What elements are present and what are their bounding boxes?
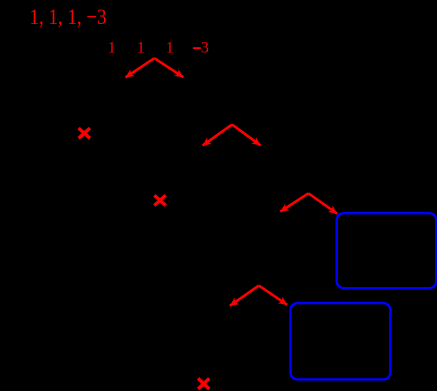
cross X1 bbox=[79, 128, 90, 138]
svg-text:1: 1 bbox=[137, 39, 145, 56]
blue box 1 bbox=[337, 213, 437, 288]
svg-text:3: 3 bbox=[201, 39, 209, 56]
cross X2 bbox=[154, 195, 165, 205]
svg-text:1: 1 bbox=[166, 39, 174, 56]
arrow V3 left bbox=[280, 193, 308, 211]
arrow V3 right bbox=[308, 193, 337, 213]
cross X3 bbox=[198, 378, 209, 389]
arrow V2 right bbox=[232, 125, 261, 146]
arrow V2 left bbox=[203, 125, 232, 146]
blue box 2 bbox=[291, 303, 391, 379]
small label -3 bbox=[193, 47, 201, 49]
arrow V4 right bbox=[259, 286, 287, 305]
arrow V1 right bbox=[154, 58, 183, 77]
svg-text:1: 1 bbox=[108, 39, 116, 56]
arrow V1 left bbox=[126, 58, 155, 77]
arrow V4 left bbox=[230, 286, 259, 306]
svg-text:1, 1, 1, −3: 1, 1, 1, −3 bbox=[30, 4, 107, 29]
